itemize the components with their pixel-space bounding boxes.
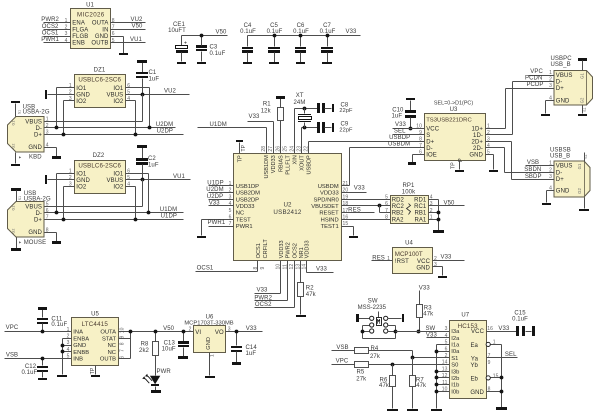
wire U2 pin18 to RP1 RC2 <box>342 205 391 207</box>
svg-text:1uF: 1uF <box>391 113 402 119</box>
junction XOUT crystal <box>303 126 307 130</box>
svg-text:6: 6 <box>445 346 448 352</box>
node V33 above R3 <box>419 285 431 304</box>
svg-text:U1: U1 <box>86 3 94 9</box>
svg-text:GND: GND <box>556 98 570 104</box>
junction S0 R6 <box>391 363 395 367</box>
node OCS2 at U1 pin2 <box>42 24 71 30</box>
svg-text:I1a: I1a <box>451 343 460 349</box>
svg-text:U5: U5 <box>91 311 99 317</box>
wire U7 Eb to ground rail <box>486 376 503 380</box>
svg-text:S1: S1 <box>584 154 588 158</box>
svg-text:OCS2: OCS2 <box>42 24 59 30</box>
ground above MOUSE shield <box>11 188 21 202</box>
svg-text:+: + <box>184 41 187 47</box>
node PWR1 stub at U2 pin7 <box>208 220 234 226</box>
node V33 stub at U2 pin4 <box>209 201 234 207</box>
svg-text:IO1: IO1 <box>113 86 124 92</box>
junction V50 C13 <box>182 330 186 334</box>
wire DZ1 pin6 to U2DM riser <box>126 88 150 128</box>
ground right of C8 <box>332 104 334 112</box>
connector USB MOUSE USBA-2G body <box>8 191 51 246</box>
connector USBPC USB_B body <box>549 56 592 105</box>
node VSB input row <box>5 352 72 358</box>
svg-text:VU1: VU1 <box>173 174 186 180</box>
capacitor C15 0.1uF <box>512 311 531 337</box>
svg-text:27k: 27k <box>356 376 367 382</box>
svg-text:VBUS: VBUS <box>107 178 124 184</box>
capacitor C14 1uF <box>231 332 257 363</box>
wire U3 pin6 IOE to ground <box>413 155 425 163</box>
svg-text:PWR2: PWR2 <box>254 296 272 302</box>
wire U6 GND pin <box>209 353 211 376</box>
ground above R1 <box>276 96 285 99</box>
svg-text:2: 2 <box>487 130 490 136</box>
svg-text:D+: D+ <box>426 140 434 146</box>
resistor R3 47k <box>417 305 435 332</box>
svg-text:GND: GND <box>469 153 483 159</box>
junction VSB C12 <box>41 357 45 361</box>
svg-text:D+: D+ <box>556 86 564 92</box>
svg-text:MCP100T: MCP100T <box>395 251 423 258</box>
svg-text:IO1: IO1 <box>76 172 87 178</box>
capacitor C6 0.1uF <box>293 23 309 62</box>
svg-text:PWR2: PWR2 <box>286 242 292 258</box>
capacitor C12 0.1uF <box>21 359 48 378</box>
svg-text:8: 8 <box>119 342 125 345</box>
svg-text:10uF: 10uF <box>162 347 176 353</box>
node U2DM row <box>45 122 176 129</box>
ground right of SW <box>402 314 404 322</box>
svg-text:2: 2 <box>69 175 72 181</box>
svg-text:STAT: STAT <box>102 336 116 342</box>
svg-text:1: 1 <box>67 327 70 333</box>
svg-text:1: 1 <box>46 117 49 123</box>
svg-text:INA: INA <box>73 330 83 336</box>
svg-text:13: 13 <box>442 366 448 372</box>
svg-text:SEL: SEL <box>505 352 517 358</box>
resistor R2 47k at U2 pin13 <box>298 261 317 315</box>
svg-text:IO2: IO2 <box>113 184 124 190</box>
svg-text:PCDN: PCDN <box>525 76 542 82</box>
node SEL at U3 pin9 <box>393 128 425 134</box>
resistor network RP1 100k body <box>385 183 433 224</box>
svg-text:XT: XT <box>296 93 304 99</box>
svg-text:PLLFLT: PLLFLT <box>286 155 292 175</box>
svg-text:VU2: VU2 <box>164 89 177 95</box>
ground below U7 <box>496 407 507 410</box>
wire U3 pin3 2D+ to SBDP riser <box>486 142 512 180</box>
svg-text:FLGB: FLGB <box>72 34 88 40</box>
svg-text:3: 3 <box>445 326 448 332</box>
svg-text:TP: TP <box>450 162 456 169</box>
svg-text:C13: C13 <box>164 340 176 346</box>
wire U5 enable pins to ground <box>61 339 72 375</box>
node VU2 at DZ1 pin5 <box>126 89 190 95</box>
node RES at U4 pin1 <box>372 255 393 261</box>
svg-text:USBDM: USBDM <box>318 184 339 190</box>
node USBDM row to U3 pin7 <box>350 141 425 147</box>
svg-text:V33: V33 <box>426 333 438 339</box>
ground at U4 pin3 <box>438 276 447 278</box>
ground below C13 <box>178 356 188 359</box>
svg-text:OUTA: OUTA <box>92 21 109 27</box>
ground above KBD shield <box>11 101 20 117</box>
svg-text:RC2: RC2 <box>392 204 405 210</box>
svg-text:IO2: IO2 <box>76 184 87 190</box>
wire U7 I1a I0a tie <box>435 345 450 409</box>
svg-text:0.1uF: 0.1uF <box>240 29 256 35</box>
svg-text:VCC: VCC <box>426 127 440 133</box>
node U2DP stub at U2 pin3 <box>207 194 234 200</box>
ground below C14 <box>232 362 241 365</box>
junction V33 C10 <box>409 127 413 131</box>
svg-text:V50: V50 <box>216 29 228 35</box>
svg-text:V33: V33 <box>316 267 328 273</box>
svg-text:OCS2: OCS2 <box>255 302 272 308</box>
node VSB at USBSB pin1 <box>526 160 555 166</box>
svg-text:HSIND: HSIND <box>321 217 339 223</box>
ESD diode array DZ1 USBLC6-2SC6 body <box>69 67 130 107</box>
ground right of C15 <box>532 326 535 336</box>
svg-text:S1: S1 <box>583 107 587 111</box>
ground at DZ1 pin2 <box>45 90 75 99</box>
svg-text:DZ1: DZ1 <box>94 67 106 73</box>
svg-text:I1b: I1b <box>451 383 459 389</box>
test point TP at U5 <box>90 366 96 375</box>
svg-text:26: 26 <box>276 146 282 152</box>
ground below R2 <box>296 315 306 317</box>
wire U3 pin2 1D- to PCDN riser <box>486 82 513 135</box>
node U2DM stub at U2 pin2 <box>206 187 233 193</box>
capacitor C4 0.1uF <box>240 23 256 62</box>
svg-text:GND: GND <box>76 92 90 98</box>
svg-text:IO1: IO1 <box>76 86 87 92</box>
svg-text:22pF: 22pF <box>339 108 353 114</box>
svg-text:OUTA: OUTA <box>100 330 116 336</box>
svg-text:VI: VI <box>195 330 201 336</box>
ground at USBSB pin4 <box>542 203 551 205</box>
svg-text:IO2: IO2 <box>113 99 124 105</box>
svg-text:5: 5 <box>445 340 448 346</box>
svg-text:USBDP: USBDP <box>389 135 410 141</box>
wire U4 pin3 GND <box>433 267 443 276</box>
ground at U3 pad <box>455 170 464 172</box>
junction XIN crystal <box>303 107 307 111</box>
node V50 at U1 pin7 <box>111 24 146 30</box>
wire VBUS riser KBD <box>45 95 143 122</box>
node V33 stub at U7 pin4 <box>426 333 450 339</box>
capacitor C1 1uF <box>136 63 159 95</box>
node U2DP row <box>45 129 184 137</box>
capacitor C13 10uF <box>162 332 189 357</box>
junction RA1 pulldown <box>429 218 441 222</box>
svg-text:PWR1: PWR1 <box>208 220 226 226</box>
wire R4 to S1 <box>369 351 450 358</box>
junction VU1 C2 <box>141 178 145 182</box>
svg-text:12: 12 <box>442 373 448 379</box>
svg-text:VDD33: VDD33 <box>304 240 310 258</box>
svg-text:G1: G1 <box>12 206 16 211</box>
svg-text:VCC: VCC <box>471 329 485 335</box>
ground below C4 <box>243 62 252 64</box>
svg-text:ENA: ENA <box>72 21 85 27</box>
svg-text:SBDN: SBDN <box>524 167 541 173</box>
junction VBUSDET branch <box>378 204 382 208</box>
svg-text:TP: TP <box>238 155 244 162</box>
junction V50 R8 <box>154 330 158 334</box>
svg-text:I0b: I0b <box>451 389 459 395</box>
junction VU2 C1 <box>141 93 145 97</box>
svg-text:1D+: 1D+ <box>472 127 484 133</box>
svg-text:NC: NC <box>108 350 116 356</box>
svg-text:6: 6 <box>385 201 388 207</box>
svg-text:PWR1: PWR1 <box>41 37 59 43</box>
svg-text:V33: V33 <box>209 201 221 207</box>
svg-text:7: 7 <box>419 143 422 149</box>
svg-text:47k: 47k <box>306 292 317 298</box>
svg-text:R2: R2 <box>306 285 314 291</box>
svg-text:USBLC6-2SC6: USBLC6-2SC6 <box>78 76 121 83</box>
svg-text:DZ2: DZ2 <box>93 153 105 159</box>
svg-text:VBUS: VBUS <box>556 73 573 79</box>
svg-text:U2: U2 <box>283 202 292 209</box>
svg-text:VBUS: VBUS <box>25 120 42 126</box>
svg-text:I3b: I3b <box>451 369 459 375</box>
svg-text:VSB: VSB <box>6 352 18 358</box>
svg-text:1: 1 <box>69 83 72 89</box>
node V50 rail top <box>182 29 228 35</box>
svg-text:VBUS: VBUS <box>556 164 573 170</box>
node V50 output row <box>119 326 194 333</box>
wire U3 pin1 1D+ to PCDP riser <box>486 89 506 129</box>
regulator U6 MCP1703T-330MB body <box>184 314 233 357</box>
svg-text:G2: G2 <box>577 188 582 194</box>
node V33 at U4 pin2 <box>433 254 465 260</box>
ground at KBD pin4 <box>52 156 61 159</box>
node SEL at U7 Ya <box>487 352 518 358</box>
ground above C2 <box>137 145 147 148</box>
svg-text:U2DM: U2DM <box>206 187 223 193</box>
svg-text:R1: R1 <box>263 101 271 107</box>
svg-text:14: 14 <box>442 360 448 366</box>
svg-text:G1: G1 <box>580 73 585 79</box>
svg-text:VPC: VPC <box>530 69 543 75</box>
svg-text:RC1: RC1 <box>414 204 427 210</box>
svg-text:18: 18 <box>343 201 349 207</box>
svg-text:U7: U7 <box>461 312 469 318</box>
wire U7 GND pin8 <box>487 390 504 394</box>
svg-text:R8: R8 <box>141 342 149 348</box>
svg-text:5: 5 <box>127 175 130 181</box>
svg-text:ENB: ENB <box>72 41 85 47</box>
svg-text:C1: C1 <box>149 70 157 76</box>
capacitor C3 0.1uF <box>196 36 226 62</box>
wire USBSB shield stub top <box>584 153 588 162</box>
crystal XT 24M <box>294 93 312 127</box>
svg-text:V50: V50 <box>132 24 144 30</box>
svg-text:24M: 24M <box>294 100 306 106</box>
ground at U2 TEST1 <box>349 236 358 238</box>
capacitor C9 22pF <box>317 122 353 134</box>
svg-text:2: 2 <box>445 353 448 359</box>
svg-text:TP: TP <box>90 367 96 374</box>
svg-text:4: 4 <box>67 347 70 353</box>
svg-text:OCS2: OCS2 <box>292 243 298 258</box>
node SBDN row <box>505 167 555 173</box>
svg-text:MOUSE: MOUSE <box>24 240 47 246</box>
svg-text:C3: C3 <box>210 45 218 51</box>
svg-text:PCDP: PCDP <box>526 82 543 88</box>
ground below C7 <box>322 62 332 64</box>
test point TP at U2 <box>236 140 247 154</box>
junction V33 C7 <box>326 34 330 38</box>
svg-text:S0: S0 <box>451 363 458 369</box>
svg-text:9: 9 <box>260 267 266 270</box>
node V33 stub at U2 pin20 <box>342 185 367 192</box>
svg-text:TP: TP <box>241 144 247 151</box>
svg-text:▸: ▸ <box>19 154 22 159</box>
ground below CE1 <box>177 62 186 64</box>
svg-text:2k2: 2k2 <box>139 348 150 354</box>
svg-text:U2DP: U2DP <box>207 194 223 200</box>
svg-text:USB1DP: USB1DP <box>236 184 259 190</box>
wire DZ2 pin1 to MOUSE D- riser <box>57 174 75 213</box>
svg-text:V33: V33 <box>346 29 358 35</box>
wire VBUS riser MOUSE <box>45 180 143 207</box>
svg-text:24: 24 <box>290 146 296 152</box>
svg-text:D+: D+ <box>34 217 42 223</box>
svg-text:OCS1: OCS1 <box>42 30 59 36</box>
svg-text:U4: U4 <box>405 241 413 247</box>
svg-text:VSB: VSB <box>336 345 348 351</box>
ground right of C9 <box>332 123 334 132</box>
svg-text:USBDP: USBDP <box>307 155 313 175</box>
svg-text:G1: G1 <box>12 121 16 126</box>
resistor R8 2k2 <box>139 332 158 376</box>
svg-text:V33: V33 <box>354 185 366 191</box>
node VPC to R5 <box>332 358 355 364</box>
svg-text:XIN: XIN <box>293 155 299 164</box>
node V33 stub at U2 pin10 <box>255 261 281 294</box>
node PCDP row <box>506 82 555 88</box>
ground below C6 <box>296 62 305 64</box>
wire DZ2 pin6 to U1DM riser <box>126 174 149 213</box>
svg-text:GND: GND <box>73 343 86 349</box>
svg-text:SBDP: SBDP <box>525 174 542 180</box>
svg-text:U1DP: U1DP <box>161 214 177 220</box>
node V33 rail top <box>248 29 361 35</box>
svg-text:SW: SW <box>368 298 378 304</box>
svg-text:RESET: RESET <box>319 211 339 217</box>
svg-text:0.1uF: 0.1uF <box>512 317 528 323</box>
IC U1 MIC2026 power switch body <box>65 3 115 49</box>
svg-text:TEST: TEST <box>236 217 251 223</box>
ground at U6 <box>205 376 215 378</box>
svg-text:6: 6 <box>127 83 130 89</box>
node SW row to U7 pin3 <box>396 326 450 332</box>
svg-text:2: 2 <box>189 327 192 333</box>
svg-text:VDD33: VDD33 <box>279 240 285 258</box>
ground at U5 enables <box>57 375 67 377</box>
node PWR2 stub at U2 pin11 <box>254 261 287 302</box>
node VU2 at U1 pin8 <box>111 17 146 23</box>
node V33 stub at U2 pin14 <box>307 261 334 273</box>
ground above C1 <box>137 60 147 63</box>
ground at U2 TEST <box>197 236 206 238</box>
svg-text:10: 10 <box>442 387 448 393</box>
svg-text:USBA-2G: USBA-2G <box>23 110 50 116</box>
svg-text:D-: D- <box>426 146 433 152</box>
svg-text:GND: GND <box>28 230 42 236</box>
wire DZ2 pin4 to U1DP riser <box>126 187 136 220</box>
wire U3 pin5 GND <box>486 155 494 170</box>
svg-text:U6: U6 <box>206 314 214 320</box>
svg-text:25: 25 <box>283 146 289 152</box>
svg-text:VU1: VU1 <box>130 37 143 43</box>
svg-text:I3a: I3a <box>451 329 460 335</box>
svg-text:OUTB: OUTB <box>91 41 108 47</box>
node U1DM stub at U2 pin28 <box>198 122 267 153</box>
junction S1 R7 <box>411 356 415 360</box>
svg-text:LTC4415: LTC4415 <box>82 321 109 328</box>
svg-text:D-: D- <box>556 80 563 86</box>
svg-text:USB2DP: USB2DP <box>236 197 259 203</box>
svg-text:VSB: VSB <box>527 160 539 166</box>
svg-text:S: S <box>426 133 430 139</box>
node U1DP row <box>45 214 184 222</box>
wire U3 pin4 2D- to SBDN riser <box>486 148 505 173</box>
resistor R1 12k <box>261 99 284 154</box>
svg-text:10: 10 <box>119 327 125 333</box>
svg-text:U2DP: U2DP <box>157 129 173 135</box>
svg-text:VO: VO <box>215 330 224 336</box>
svg-text:V33: V33 <box>498 326 510 332</box>
svg-text:IOE: IOE <box>426 153 437 159</box>
junction RB1 pulldown <box>429 211 441 215</box>
capacitor C7 0.1uF <box>320 23 336 62</box>
wire XOUT net <box>302 128 318 154</box>
ground at U3 IOE <box>408 162 416 165</box>
ground below C5 <box>269 62 279 64</box>
wire U2 pin21 USBDM riser <box>342 148 350 186</box>
svg-text:RBIAS: RBIAS <box>279 155 285 172</box>
svg-text:I2a: I2a <box>451 336 460 342</box>
svg-text:GND: GND <box>206 337 212 350</box>
svg-text:RB2: RB2 <box>392 211 404 217</box>
capacitor C8 22pF <box>317 102 353 114</box>
svg-text:PWR: PWR <box>157 369 172 375</box>
svg-text:4: 4 <box>487 143 490 149</box>
capacitor C10 1uF <box>391 101 416 129</box>
ground below C12 <box>38 378 47 380</box>
capacitor C11 0.1uF <box>37 310 67 332</box>
svg-text:R4: R4 <box>371 346 379 352</box>
node V33 output row <box>226 326 263 332</box>
ground below input rail <box>431 409 442 411</box>
ground below R6 <box>387 409 398 411</box>
svg-text:5: 5 <box>229 208 232 214</box>
svg-text:GND: GND <box>556 188 570 194</box>
svg-text:U1DM: U1DM <box>210 122 227 128</box>
svg-text:U3: U3 <box>450 107 458 113</box>
wire U2 pin15 TEST1 to ground <box>342 227 354 236</box>
svg-text:USB_B: USB_B <box>550 154 570 160</box>
svg-text:RA2: RA2 <box>392 217 404 223</box>
wire U7 b-inputs grounded rail <box>435 370 450 394</box>
node V50 at RP1 pin3 <box>429 200 465 206</box>
wire USBPC GND pin4 <box>546 101 555 114</box>
